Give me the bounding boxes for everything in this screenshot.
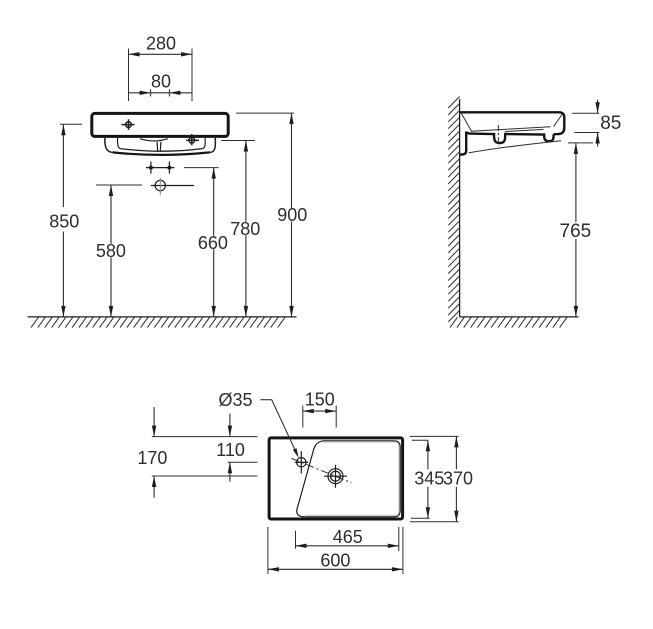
front view: drain boss and pipe (140, 139, 168, 152)
svg-text:85: 85 (600, 113, 621, 134)
svg-text:150: 150 (305, 390, 335, 410)
dimension 80 (129, 72, 193, 97)
svg-text:Ø35: Ø35 (218, 390, 252, 410)
svg-text:465: 465 (333, 527, 363, 547)
plan view: bowl inner outline (297, 441, 400, 517)
front view: fixing holes (80mm) (146, 162, 175, 174)
side view: basin interior lines (462, 114, 563, 132)
svg-text:370: 370 (443, 468, 473, 488)
front view: basin body (92, 113, 228, 136)
svg-text:280: 280 (146, 33, 176, 53)
dimension 765 (560, 143, 593, 317)
dimension 110 (216, 414, 245, 482)
front view: floor line (28, 317, 297, 328)
svg-text:660: 660 (198, 233, 228, 253)
side view: wall hatching (448, 97, 459, 322)
dimension 900 (236, 113, 307, 317)
svg-text:900: 900 (277, 205, 307, 225)
label diameter 35 with leader (218, 390, 298, 458)
dimension 170 (137, 407, 167, 498)
front view: bowl apron outline (105, 138, 216, 155)
front view: overflow hole crosshair (186, 134, 199, 145)
svg-text:110: 110 (216, 440, 245, 460)
dimension 580 (96, 185, 142, 317)
dimension 150 (303, 390, 336, 428)
side view: floor line (450, 317, 579, 328)
dimension 600 (268, 527, 403, 574)
side view: wall line (459, 99, 461, 317)
side view: basin section outline (460, 112, 565, 154)
plan view: left extension lines (152, 437, 258, 476)
svg-text:765: 765 (560, 221, 592, 242)
dimension 660 (184, 168, 228, 317)
svg-text:80: 80 (151, 72, 171, 92)
svg-text:600: 600 (320, 551, 350, 571)
plan view: drain hole (324, 465, 347, 488)
side view: drain centerline (497, 125, 499, 146)
svg-text:345: 345 (414, 468, 444, 488)
dimension 345 (411, 440, 444, 518)
svg-text:170: 170 (137, 448, 167, 468)
svg-text:850: 850 (49, 211, 79, 231)
front view: siphon hole circle (151, 178, 194, 196)
svg-text:580: 580 (96, 241, 126, 261)
dimension 370 (410, 436, 473, 521)
svg-text:780: 780 (230, 219, 260, 239)
side view: apron lower edge (469, 141, 562, 153)
dimension 280 (129, 33, 193, 101)
plan view: centre dash-dot line (292, 458, 352, 482)
dimension 85 (572, 100, 621, 147)
dimension 780 (221, 141, 260, 317)
dimension 465 (296, 527, 399, 551)
front view: tap hole crosshair (122, 119, 135, 130)
dimension 850 (49, 124, 82, 317)
plan view: basin outer rect (269, 438, 403, 519)
plan view: tap hole (295, 451, 309, 474)
